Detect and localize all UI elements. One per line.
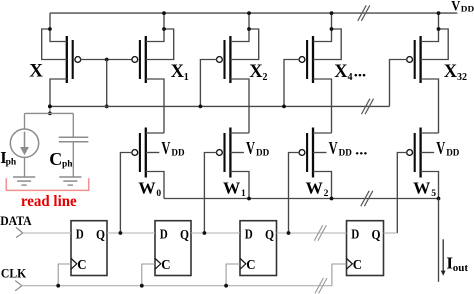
arrow Iout current direction bbox=[441, 239, 446, 275]
wire X32 bulk to source bbox=[421, 29, 449, 60]
label W0 bbox=[138, 179, 161, 199]
transistor W1 (PMOS switch) bbox=[217, 128, 231, 178]
flip-flop DFF4 box bbox=[347, 221, 384, 276]
wire X gate riser to read line bbox=[106, 60, 108, 107]
wire W1 source to output line bbox=[230, 172, 249, 199]
node X source junction bbox=[48, 27, 52, 31]
node gate riser on read line bbox=[105, 105, 109, 109]
label X1 bbox=[171, 62, 189, 83]
wire W5 source to output line bbox=[421, 172, 439, 199]
ground under Cph bbox=[59, 177, 81, 185]
svg-text:V: V bbox=[246, 138, 255, 158]
wire W1 gate from flip-flop bbox=[204, 153, 217, 234]
wire DATA to DFF1 D bbox=[23, 232, 71, 234]
current source Iph bbox=[10, 113, 38, 177]
break symbol on data wire bbox=[314, 225, 326, 240]
label C of DFF4 bbox=[353, 258, 362, 273]
label X32 bbox=[444, 62, 467, 83]
transistor W5 (PMOS switch) bbox=[407, 128, 421, 178]
svg-text:2: 2 bbox=[263, 72, 268, 83]
wire W0 bulk stub bbox=[146, 152, 160, 154]
svg-text:DD: DD bbox=[461, 3, 474, 13]
wire X source to VDD rail bbox=[50, 13, 67, 41]
wire output summing line bbox=[164, 198, 439, 200]
svg-text:X: X bbox=[444, 62, 458, 82]
clock triangle of DFF3 bbox=[240, 258, 246, 269]
node X2 on VDD rail bbox=[247, 11, 251, 15]
node W1 source on output line bbox=[247, 197, 251, 201]
node X1 source junction bbox=[162, 27, 166, 31]
wire W5 drain lead bbox=[421, 132, 439, 134]
flip-flop DFF3 box bbox=[240, 221, 277, 276]
svg-text:1: 1 bbox=[184, 72, 189, 83]
node X4 gate riser on read line bbox=[282, 105, 286, 109]
svg-text:ph: ph bbox=[6, 158, 17, 168]
wire VDD top rail bbox=[50, 12, 457, 14]
node X4 on VDD rail bbox=[330, 11, 334, 15]
label Iout bbox=[446, 254, 468, 275]
label Q of DFF1 bbox=[96, 228, 105, 243]
svg-text:W: W bbox=[223, 179, 241, 198]
svg-text:out: out bbox=[453, 262, 469, 274]
wire X1 source to VDD rail bbox=[146, 13, 164, 41]
clock triangle of DFF2 bbox=[155, 258, 161, 269]
label C of DFF2 bbox=[161, 258, 170, 273]
svg-text:X: X bbox=[171, 62, 185, 82]
svg-text:32: 32 bbox=[457, 72, 467, 83]
label read line (red) bbox=[21, 193, 77, 210]
wire W0 source to output line bbox=[146, 172, 164, 199]
wire W1 bulk stub bbox=[230, 152, 244, 154]
wire X drain to read line bbox=[50, 79, 67, 106]
wire X2 bulk to source bbox=[230, 29, 258, 60]
label X4 bbox=[334, 62, 366, 83]
wire W2 gate from flip-flop bbox=[289, 153, 300, 234]
transistor X2 (PMOS mirror output) bbox=[217, 36, 231, 83]
clock triangle of DFF4 bbox=[347, 258, 353, 269]
wire DFF4 Q output bbox=[384, 232, 398, 234]
node CLK junction 1 bbox=[56, 284, 60, 288]
svg-text:Q: Q bbox=[372, 228, 381, 243]
transistor X1 (PMOS mirror output) bbox=[132, 36, 146, 83]
svg-text:...: ... bbox=[355, 142, 367, 158]
svg-text:read line: read line bbox=[21, 193, 77, 210]
wire W1 drain lead bbox=[230, 132, 249, 134]
label W5 bbox=[413, 179, 436, 199]
wire X bulk to source bbox=[42, 29, 67, 60]
node Q3 riser junction bbox=[287, 231, 291, 235]
wire CLK riser to DFF4 C bbox=[332, 264, 347, 286]
svg-text:W: W bbox=[306, 179, 324, 198]
node CLK junction 3 bbox=[224, 284, 228, 288]
svg-text:D: D bbox=[245, 228, 253, 243]
wire W2 source to output line bbox=[313, 172, 332, 199]
node CLK junction 2 bbox=[140, 284, 144, 288]
svg-text:0: 0 bbox=[156, 189, 161, 199]
wire CLK riser to DFF2 C bbox=[142, 264, 155, 286]
svg-text:V: V bbox=[161, 138, 170, 158]
svg-text:DD: DD bbox=[339, 149, 352, 159]
svg-text:DD: DD bbox=[171, 149, 184, 159]
label DATA bbox=[0, 214, 31, 228]
svg-text:Q: Q bbox=[265, 228, 274, 243]
label VDD bulk of W1 bbox=[246, 138, 269, 159]
transistor W0 (PMOS switch) bbox=[132, 128, 146, 178]
svg-text:1: 1 bbox=[241, 189, 246, 199]
wire DFF3 Q to DFF4 D bbox=[277, 232, 347, 234]
node Q1 riser junction bbox=[119, 231, 123, 235]
svg-text:...: ... bbox=[354, 63, 366, 80]
svg-text:X: X bbox=[249, 62, 263, 82]
svg-text:2: 2 bbox=[324, 189, 329, 199]
flip-flop DFF2 box bbox=[155, 221, 191, 276]
wire X32 source to VDD rail bbox=[421, 13, 439, 41]
wire CLK line bbox=[22, 285, 332, 287]
node X gate junction bbox=[105, 58, 109, 62]
svg-text:W: W bbox=[138, 179, 156, 198]
svg-text:D: D bbox=[351, 228, 359, 243]
node X4 source junction bbox=[330, 27, 334, 31]
label Q of DFF4 bbox=[372, 228, 381, 243]
node W2 source on output line bbox=[330, 197, 334, 201]
break symbol on CLK line bbox=[315, 278, 327, 293]
wire W0 drain lead bbox=[146, 132, 164, 134]
arrow CLK input bbox=[15, 281, 22, 291]
capacitor Cph bbox=[59, 113, 89, 177]
wire CLK riser to DFF1 C bbox=[58, 264, 71, 286]
node photodiode tap lower bbox=[48, 112, 52, 116]
svg-text:C: C bbox=[246, 258, 255, 273]
label Q of DFF3 bbox=[265, 228, 274, 243]
wire DFF2 Q to DFF3 D bbox=[191, 232, 240, 234]
svg-text:W: W bbox=[413, 179, 431, 198]
label Cph bbox=[49, 149, 73, 169]
svg-text:V: V bbox=[436, 138, 445, 158]
node Q2 riser junction bbox=[203, 231, 207, 235]
wire X4 source to VDD rail bbox=[313, 13, 332, 41]
node X1 on VDD rail bbox=[162, 11, 166, 15]
wire CLK riser to DFF3 C bbox=[226, 264, 240, 286]
node X2 source junction bbox=[247, 27, 251, 31]
svg-text:D: D bbox=[76, 228, 84, 243]
svg-text:V: V bbox=[451, 0, 460, 14]
svg-text:X: X bbox=[29, 61, 43, 82]
svg-text:C: C bbox=[353, 258, 362, 273]
label W2 bbox=[306, 179, 329, 199]
svg-text:X: X bbox=[334, 62, 348, 82]
wire W0 gate from flip-flop bbox=[120, 153, 132, 234]
wire gate riser to X32 bbox=[390, 60, 408, 107]
label X bbox=[29, 61, 43, 82]
wire gate riser to X4 bbox=[284, 60, 300, 107]
break symbol on output line bbox=[361, 191, 373, 206]
svg-text:C: C bbox=[161, 258, 170, 273]
label Q of DFF2 bbox=[180, 228, 189, 243]
node X32 on VDD rail bbox=[437, 11, 441, 15]
node photodiode tap upper bbox=[48, 105, 52, 109]
label VDD bulk of W5 bbox=[436, 138, 459, 159]
label X2 bbox=[249, 62, 267, 83]
break symbol on read line bbox=[362, 99, 374, 114]
wire W2 drain lead bbox=[313, 132, 332, 134]
label D of DFF2 bbox=[160, 228, 168, 243]
svg-text:C: C bbox=[77, 258, 86, 273]
node X32 source junction bbox=[437, 27, 441, 31]
label VDD bulk of W0 bbox=[161, 138, 184, 159]
svg-text:DATA: DATA bbox=[0, 214, 31, 228]
svg-text:Q: Q bbox=[180, 228, 189, 243]
wire X4 bulk to source bbox=[313, 29, 341, 60]
wire read line bbox=[50, 105, 390, 107]
wire W5 bulk stub bbox=[421, 152, 435, 154]
wire W5 gate from flip-flop bbox=[397, 153, 407, 234]
svg-text:4: 4 bbox=[348, 72, 353, 83]
node X2 gate riser on read line bbox=[199, 105, 203, 109]
wire X1 drain to W drain bbox=[146, 79, 164, 133]
power VDD label (top right) bbox=[451, 0, 474, 14]
svg-text:C: C bbox=[49, 149, 62, 169]
label D of DFF1 bbox=[76, 228, 84, 243]
wire X gate segment to X1 bbox=[80, 59, 132, 61]
label C of DFF1 bbox=[77, 258, 86, 273]
svg-text:D: D bbox=[160, 228, 168, 243]
transistor X (PMOS, diode-connected mirror input) bbox=[67, 36, 81, 83]
svg-text:V: V bbox=[329, 138, 338, 158]
wire X2 drain to W drain bbox=[230, 79, 249, 133]
svg-text:Q: Q bbox=[96, 228, 105, 243]
flip-flop DFF1 box bbox=[71, 221, 107, 276]
label VDD bulk of W2 bbox=[329, 138, 368, 159]
wire W2 bulk stub bbox=[313, 152, 327, 154]
transistor X32 (PMOS mirror output) bbox=[407, 36, 421, 83]
wire Iph-Cph horizontal bbox=[25, 112, 74, 114]
bracket read line (red) bbox=[6, 178, 88, 190]
label D of DFF4 bbox=[351, 228, 359, 243]
wire X1 bulk to source bbox=[146, 29, 174, 60]
svg-text:DD: DD bbox=[446, 149, 459, 159]
label CLK bbox=[1, 266, 27, 281]
wire gate riser to X2 bbox=[200, 60, 217, 107]
wire X32 drain to W drain bbox=[421, 79, 439, 133]
break symbol on VDD rail bbox=[358, 5, 370, 20]
arrow DATA input bbox=[16, 227, 23, 237]
node X drain on read line bbox=[48, 105, 52, 109]
node W5 source on output line bbox=[437, 197, 441, 201]
ground under Iph bbox=[13, 177, 35, 185]
label W1 bbox=[223, 179, 246, 199]
wire output line down to Iout bbox=[438, 199, 440, 282]
transistor X4 (PMOS mirror output) bbox=[299, 36, 313, 83]
svg-text:5: 5 bbox=[431, 189, 436, 199]
wire read line to photodiode node bbox=[49, 106, 51, 113]
svg-text:CLK: CLK bbox=[1, 266, 27, 281]
wire DFF1 Q to DFF2 D bbox=[107, 232, 155, 234]
wire X4 drain to W drain bbox=[313, 79, 332, 133]
transistor W2 (PMOS switch) bbox=[299, 128, 313, 178]
label Iph bbox=[0, 148, 17, 168]
wire X2 source to VDD rail bbox=[230, 13, 249, 41]
clock triangle of DFF1 bbox=[71, 258, 77, 269]
svg-text:ph: ph bbox=[62, 159, 73, 169]
label C of DFF3 bbox=[246, 258, 255, 273]
svg-text:DD: DD bbox=[256, 149, 269, 159]
label D of DFF3 bbox=[245, 228, 253, 243]
